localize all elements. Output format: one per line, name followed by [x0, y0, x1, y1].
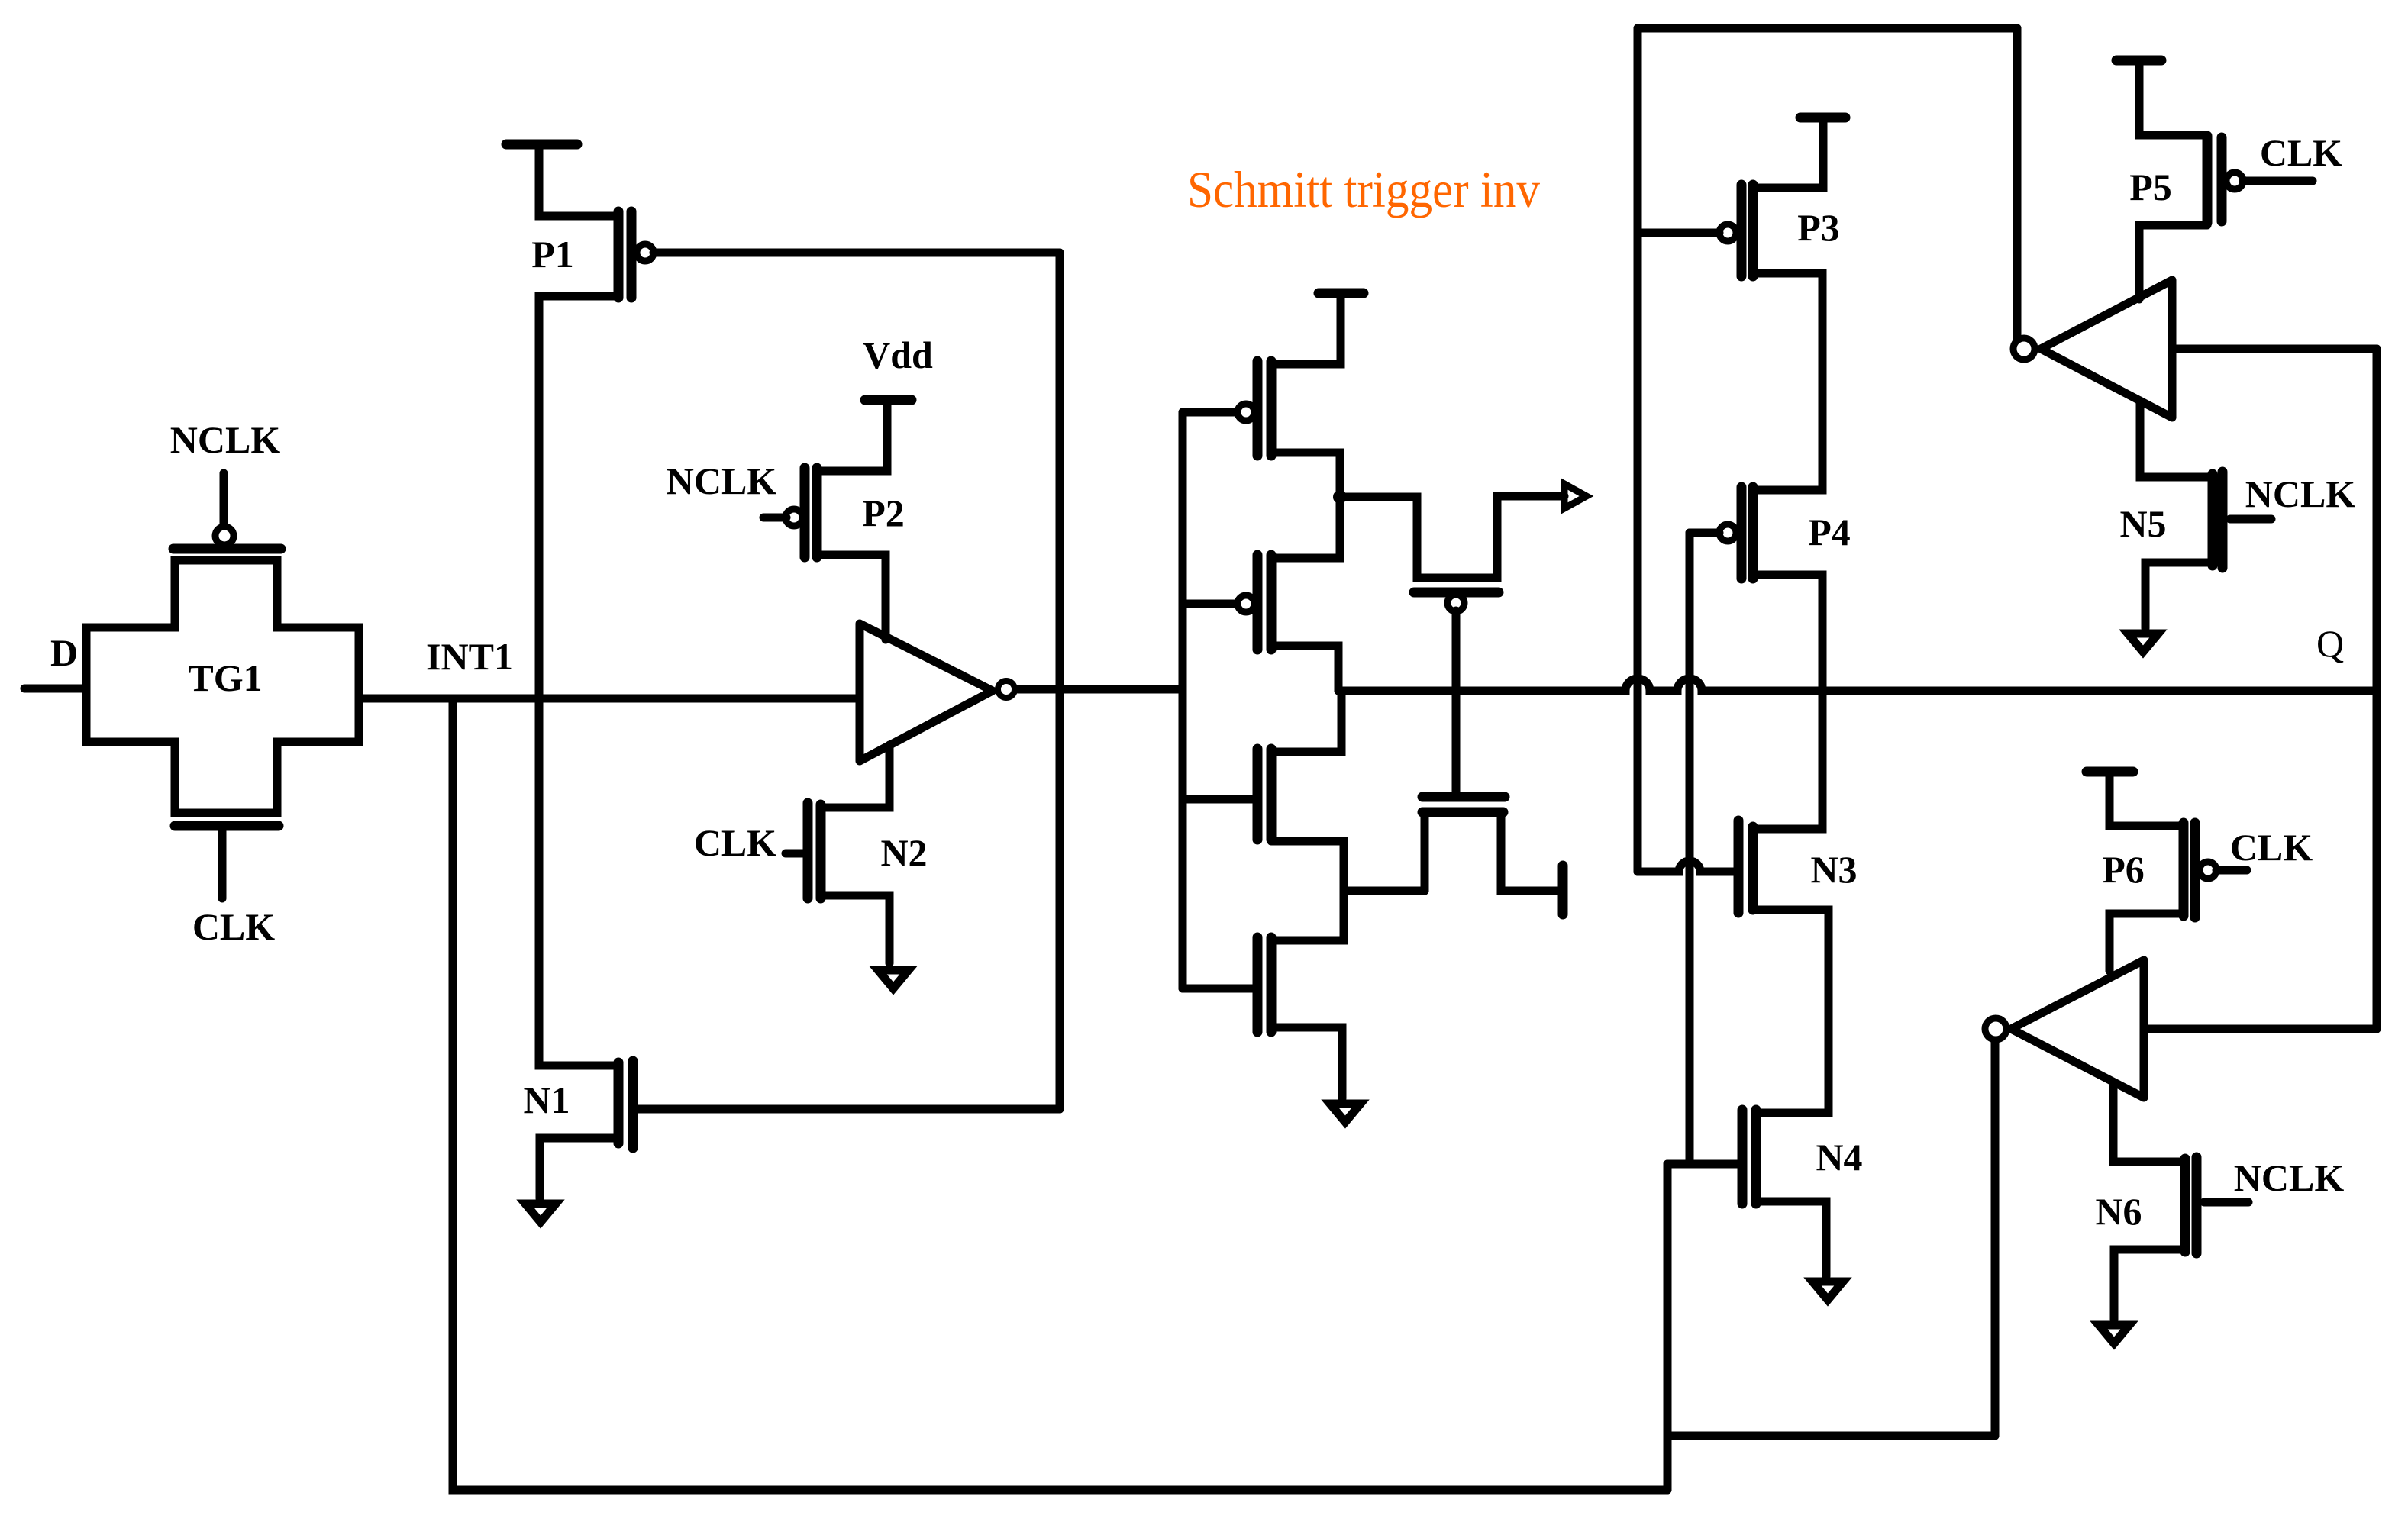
- transistor P3 gate plate: [1737, 185, 1747, 276]
- transmission gate TG1 cross outline: [86, 560, 359, 813]
- op-amp U2 inverter2 triangle (points left): [2041, 280, 2172, 418]
- wire N6 drain to inverter3 bottom: [2113, 1084, 2185, 1162]
- svg-text:P6: P6: [2102, 848, 2145, 891]
- transistor P2 gate plate: [800, 468, 810, 557]
- transistor schmitt pmos A gate plate: [1253, 361, 1263, 456]
- wire nmos D source to ground: [1271, 1027, 1342, 1098]
- bubble inverter2 output: [2013, 338, 2035, 360]
- bubble schmitt feedback pmos gate: [1448, 595, 1464, 611]
- transistor P3 channel plate: [1748, 185, 1758, 276]
- wire mid tap to feedback nmos: [1344, 887, 1425, 895]
- transistor N1 channel plate: [614, 1062, 624, 1143]
- wire P4 N4 gate bus: [1686, 533, 1694, 1164]
- wire schmitt gate bus: [1179, 412, 1187, 988]
- svg-text:CLK: CLK: [694, 821, 776, 864]
- wire inverter3 output down to bottom feedback: [1991, 1042, 2000, 1436]
- transistor N2 channel plate: [816, 805, 826, 898]
- power bar P1: [506, 140, 577, 150]
- arrow output terminal: [1564, 484, 1587, 508]
- wire NCLK stub to TG1 top gate: [220, 473, 228, 524]
- ground below N1: [525, 1204, 556, 1222]
- wire Q vertical to inverter inputs: [2373, 349, 2381, 1029]
- svg-text:P2: P2: [862, 492, 905, 534]
- bubble P2 gate: [786, 509, 802, 526]
- transistor N4 channel plate: [1751, 1110, 1761, 1204]
- wire P5 gate stub: [2243, 177, 2313, 185]
- transistor P4 channel plate: [1748, 487, 1758, 579]
- wire nmos C drain to output: [1271, 691, 1341, 752]
- svg-text:INT1: INT1: [426, 635, 513, 678]
- transistor schmitt feedback pmos gate plate: [1414, 588, 1499, 598]
- wire inverter2 input from Q: [2172, 345, 2377, 353]
- wire N2 gate stub: [786, 850, 803, 858]
- wire CLK stub to TG1 bottom gate: [218, 831, 227, 898]
- wire P4 drain to N3 drain through Q: [1753, 575, 1822, 829]
- op-amp U3 inverter3 triangle (points left): [2011, 960, 2144, 1098]
- wire slave gate bus down to bottom feedback: [1664, 1164, 1672, 1490]
- transistor schmitt pmos B channel plate: [1267, 555, 1277, 650]
- transistor schmitt pmos B gate plate: [1253, 555, 1263, 650]
- svg-text:CLK: CLK: [2230, 826, 2313, 869]
- wire P2 drain to inverter top: [817, 555, 886, 640]
- svg-text:D: D: [50, 631, 78, 674]
- transistor N1 gate plate: [628, 1061, 638, 1148]
- power bar P6: [2087, 767, 2133, 777]
- TG1 top gate bar: [173, 544, 281, 554]
- transistor schmitt nmos C gate plate: [1253, 749, 1263, 840]
- ground below N2: [878, 970, 909, 988]
- power bar schmitt: [1319, 289, 1364, 298]
- wire P4 gate stub: [1690, 529, 1719, 537]
- wire N3 gate stub with hop: [1638, 861, 1734, 872]
- wire P2 source stem: [817, 400, 887, 471]
- wire schmitt input from inverter 1: [1177, 685, 1186, 694]
- svg-text:Vdd: Vdd: [863, 334, 933, 376]
- transistor N2 gate plate: [803, 803, 813, 898]
- wire P5 drain to inverter2 top: [2139, 225, 2207, 299]
- wire N5 gate stub: [2230, 515, 2271, 524]
- node INT1 wire: [359, 695, 860, 703]
- svg-text:Q: Q: [2316, 622, 2344, 665]
- terminal bar feedback nmos source: [1558, 866, 1568, 914]
- TG1 bottom gate bar: [175, 821, 279, 831]
- power bar P3: [1800, 113, 1845, 123]
- transistor P4 gate plate: [1737, 487, 1747, 579]
- svg-text:CLK: CLK: [2260, 131, 2342, 174]
- wire gate stub pmos A: [1183, 408, 1237, 417]
- transistor N6 channel plate: [2180, 1159, 2190, 1252]
- transistor N3 gate plate: [1734, 821, 1744, 913]
- ground below N6: [2099, 1325, 2129, 1343]
- wire feedback nmos right arm to terminal: [1501, 812, 1561, 891]
- bubble P6 gate: [2200, 862, 2216, 879]
- transistor schmitt feedback nmos channel plate: [1422, 808, 1503, 817]
- wire N6 source to ground: [2114, 1250, 2185, 1320]
- svg-text:CLK: CLK: [192, 905, 275, 948]
- svg-text:P1: P1: [531, 233, 574, 276]
- svg-text:P5: P5: [2129, 166, 2172, 208]
- wire P1 gate to feedback: [654, 249, 1060, 257]
- wire inverter 1 output to schmitt input: [1018, 685, 1181, 694]
- svg-text:NCLK: NCLK: [170, 418, 281, 461]
- transistor P6 channel plate: [2179, 823, 2189, 916]
- power bar P5: [2116, 56, 2161, 66]
- transistor schmitt pmos A channel plate: [1267, 361, 1277, 456]
- wire gate stub nmos D: [1183, 985, 1253, 993]
- wire nmos C source to nmos D drain: [1271, 841, 1344, 940]
- bubble inverter 1 output: [998, 681, 1015, 698]
- transistor P5 gate plate: [2217, 137, 2227, 221]
- wire mid tap to feedback pmos: [1340, 496, 1564, 578]
- wire N4 gate stub: [1667, 1160, 1738, 1169]
- transistor P1 channel plate: [614, 211, 624, 298]
- wire P3 N3 gate bus: [1634, 28, 1642, 872]
- wire P1 drain down to N1 drain: [539, 296, 618, 1066]
- wire pmos B drain to output: [1271, 646, 1338, 691]
- wire feedback pmos gate down to output node and nmos gate: [1452, 611, 1461, 797]
- transistor N5 channel plate: [2208, 474, 2218, 566]
- wire P3 source stem: [1753, 118, 1823, 188]
- bubble schmitt pmos B gate: [1238, 595, 1254, 612]
- svg-text:Schmitt trigger inv: Schmitt trigger inv: [1187, 160, 1540, 218]
- svg-text:P3: P3: [1797, 206, 1840, 249]
- bubble inverter3 output: [1985, 1018, 2006, 1040]
- bubble P5 gate: [2226, 173, 2243, 189]
- op-amp U1 inverter triangle: [860, 624, 993, 761]
- wire inverter2 output drop: [2013, 28, 2022, 339]
- ground below N5: [2128, 634, 2158, 652]
- svg-text:TG1: TG1: [188, 656, 262, 699]
- transistor N4 gate plate: [1738, 1110, 1748, 1204]
- wire N5 source to ground: [2145, 563, 2213, 628]
- transistor P1 gate plate: [627, 211, 637, 298]
- wire N6 gate stub: [2204, 1198, 2248, 1207]
- wire P5 source stem: [2139, 60, 2207, 135]
- svg-text:NCLK: NCLK: [2234, 1156, 2345, 1199]
- ground below N4: [1812, 1282, 1843, 1300]
- wire N1 source to ground: [540, 1138, 618, 1198]
- wire N4 source to ground: [1756, 1201, 1826, 1276]
- wire P1 source stem: [539, 144, 618, 216]
- wire P3 gate stub: [1638, 229, 1719, 237]
- bubble P1 gate: [637, 244, 654, 261]
- bubble TG1 pmos gate: [215, 527, 234, 545]
- transistor P2 channel plate: [812, 468, 822, 557]
- bubble P4 gate: [1719, 524, 1736, 541]
- transistor schmitt nmos D channel plate: [1267, 937, 1277, 1032]
- wire gate stub pmos B: [1183, 600, 1237, 608]
- wire D input: [24, 685, 86, 693]
- svg-text:N5: N5: [2119, 502, 2166, 545]
- wire gate stub nmos C: [1183, 795, 1253, 804]
- wire P3 drain to P4 source: [1753, 273, 1822, 490]
- wire N2 drain to inverter bottom: [821, 745, 889, 808]
- wire pmos A drain to pmos B source: [1271, 453, 1340, 558]
- transistor P5 channel plate: [2203, 136, 2213, 223]
- wire bottom feedback long: [453, 698, 1667, 1490]
- transistor P6 gate plate: [2190, 823, 2200, 917]
- svg-text:N4: N4: [1816, 1136, 1862, 1179]
- node junction dot: [1333, 490, 1347, 504]
- wire N1 gate to feedback: [633, 1105, 1060, 1114]
- wire inverter3 output tap: [1667, 1432, 1995, 1440]
- wire P6 drain to inverter3 top: [2109, 914, 2184, 971]
- wire N5 drain to inverter2 bottom: [2140, 401, 2213, 477]
- transistor schmitt nmos D gate plate: [1253, 937, 1263, 1032]
- wire Q output with hops: [1338, 679, 2377, 691]
- power bar Vdd (P2): [865, 395, 912, 405]
- svg-text:N2: N2: [880, 831, 927, 874]
- transistor N6 gate plate: [2192, 1157, 2202, 1253]
- transistor schmitt feedback nmos gate plate: [1422, 792, 1505, 802]
- svg-text:N1: N1: [523, 1079, 570, 1121]
- transistor schmitt nmos C channel plate: [1267, 749, 1277, 840]
- bubble P3 gate: [1719, 224, 1736, 241]
- svg-text:P4: P4: [1808, 511, 1851, 553]
- wire feedback nmos left arm: [1421, 812, 1429, 891]
- bubble schmitt pmos A gate: [1238, 404, 1254, 421]
- wire P6 source stem: [2109, 772, 2184, 826]
- wire N2 source to ground: [821, 895, 889, 963]
- wire inverter3 input from Q: [2144, 1025, 2377, 1033]
- wire schmitt pmos A source stem: [1271, 293, 1341, 364]
- svg-text:N3: N3: [1810, 848, 1857, 891]
- transistor N5 gate plate: [2218, 472, 2228, 568]
- wire P6 gate stub: [2216, 866, 2247, 875]
- ground below schmitt: [1330, 1104, 1361, 1122]
- transistor N3 channel plate: [1748, 827, 1758, 910]
- wire N3 source to N4 drain: [1753, 910, 1829, 1113]
- svg-text:N6: N6: [2095, 1190, 2142, 1233]
- svg-text:NCLK: NCLK: [667, 460, 777, 502]
- svg-text:NCLK: NCLK: [2245, 472, 2356, 515]
- wire feedback vertical (inv1 out to P1/N1 gates): [1056, 253, 1064, 1109]
- wire P2 gate stub: [763, 514, 786, 522]
- wire top rail inverter2 out to P3 N3 gates: [1638, 24, 2017, 33]
